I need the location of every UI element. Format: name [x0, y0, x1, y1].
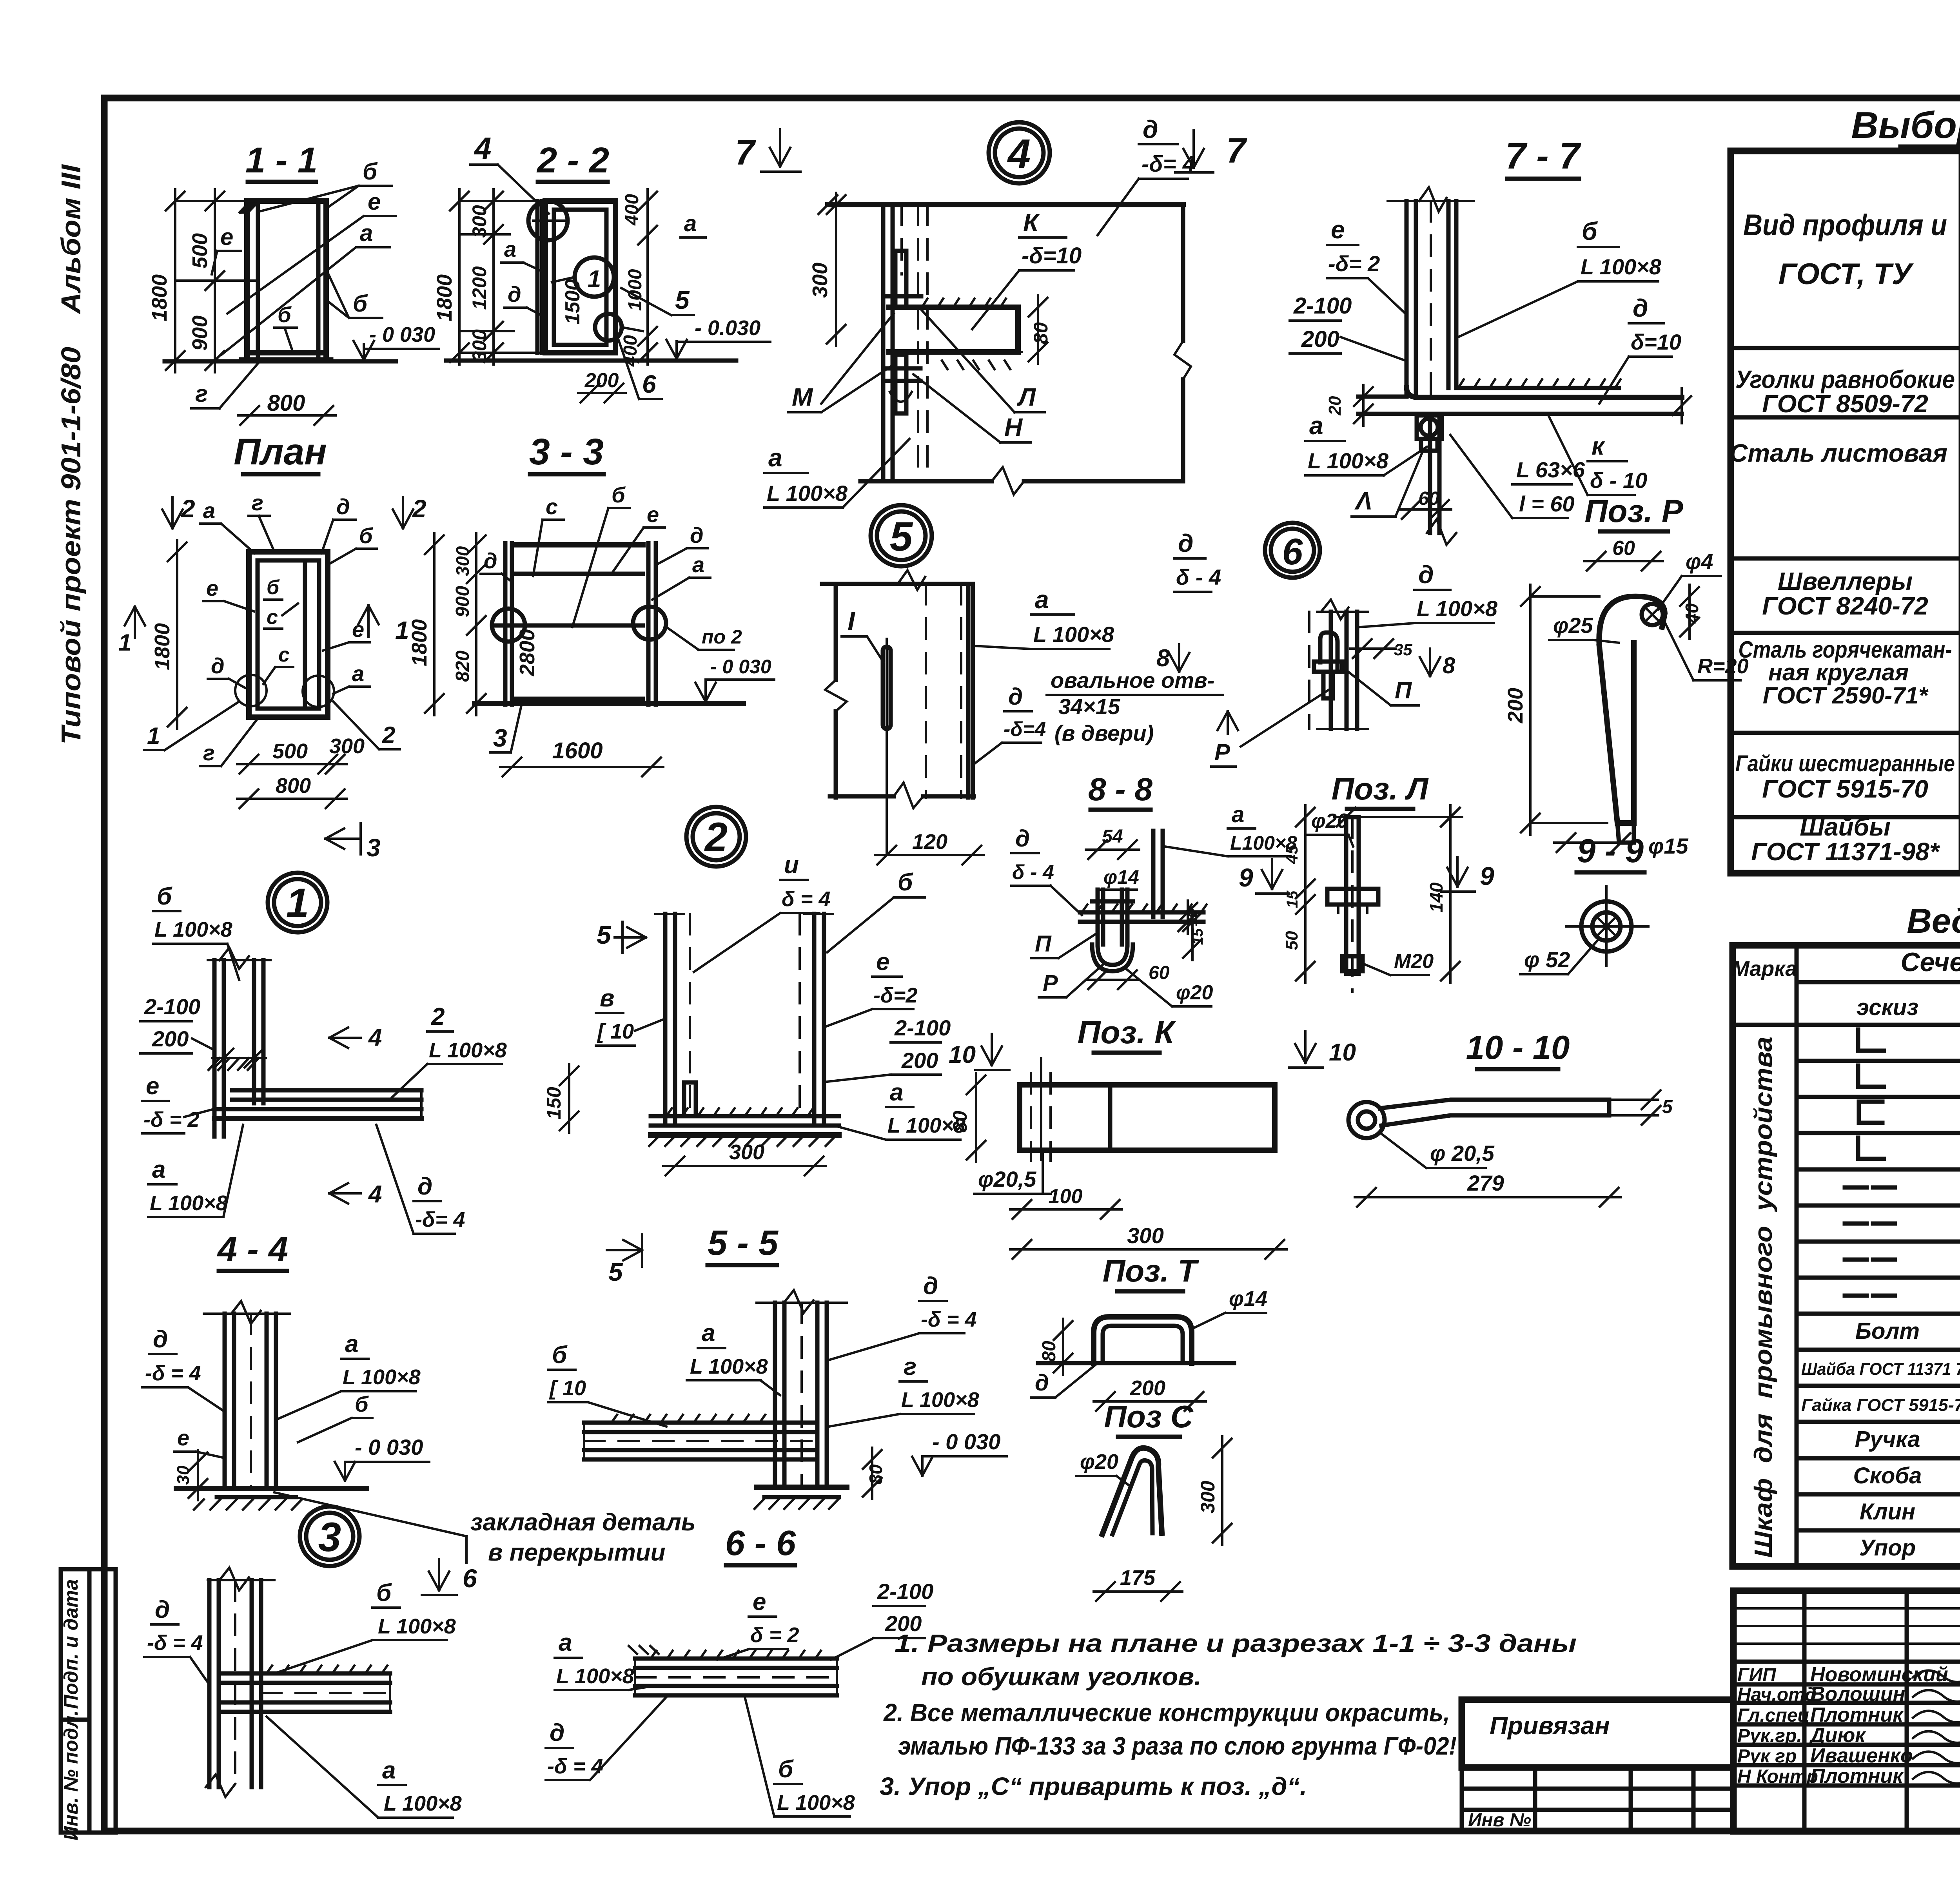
notes text block — [880, 1629, 1577, 1800]
table: Выборка металла grid — [1731, 151, 1960, 873]
svg-text:5: 5 — [675, 285, 690, 314]
svg-text:φ14: φ14 — [1229, 1287, 1267, 1311]
svg-text:80: 80 — [866, 1464, 886, 1485]
svg-text:Шайбы: Шайбы — [1800, 813, 1891, 841]
svg-text:200: 200 — [1301, 326, 1339, 352]
svg-text:100: 100 — [1049, 1185, 1083, 1208]
node circle 4 — [989, 122, 1050, 183]
svg-text:б: б — [552, 1341, 568, 1369]
table: Ведомость элементов title — [1907, 901, 1960, 940]
svg-text:820: 820 — [452, 651, 473, 682]
table: Ведомость элементов header — [1732, 947, 1960, 1030]
svg-text:L 100×8: L 100×8 — [1417, 596, 1498, 621]
svg-text:7: 7 — [735, 133, 756, 172]
svg-text:300: 300 — [468, 329, 490, 362]
svg-text:3. Упор „С“ приварить к поз: 3. Упор „С“ приварить к поз. „д“. — [880, 1772, 1307, 1800]
svg-text:8: 8 — [1443, 653, 1455, 678]
План title — [234, 431, 327, 474]
section 3-3 title — [529, 431, 604, 474]
Поз. С title — [1104, 1399, 1193, 1437]
svg-text:е: е — [368, 189, 381, 215]
table: Ведомость элементов rotated mark text — [1749, 1037, 1777, 1558]
svg-text:1800: 1800 — [151, 623, 174, 670]
svg-text:-δ=2: -δ=2 — [873, 984, 918, 1007]
svg-text:45: 45 — [1282, 845, 1301, 864]
svg-text:ГОСТ 11371-98*: ГОСТ 11371-98* — [1751, 838, 1940, 866]
svg-text:6 - 6: 6 - 6 — [725, 1524, 796, 1563]
svg-text:и: и — [784, 852, 799, 879]
svg-text:а: а — [890, 1079, 903, 1106]
svg-text:-δ = 4: -δ = 4 — [147, 1631, 203, 1655]
Поз. Л title — [1332, 771, 1429, 809]
svg-text:е: е — [146, 1073, 159, 1100]
svg-text:-δ= 2: -δ= 2 — [1328, 251, 1380, 276]
svg-text:200: 200 — [885, 1611, 922, 1636]
svg-text:φ4: φ4 — [1686, 549, 1713, 574]
svg-text:6: 6 — [642, 370, 656, 398]
svg-text:200: 200 — [1504, 688, 1527, 723]
grid below Привязан box — [1462, 1767, 1733, 1831]
svg-text:б: б — [278, 302, 292, 327]
svg-text:35: 35 — [1394, 640, 1412, 659]
svg-text:60: 60 — [1149, 963, 1170, 983]
table: Выборка металла title — [1851, 104, 1960, 147]
node 1 detail drawing (угол каркаса) — [208, 948, 421, 1137]
svg-text:Н Контр: Н Контр — [1737, 1766, 1818, 1787]
svg-text:Выборка металла: Выборка металла — [1851, 104, 1960, 146]
svg-text:д: д — [1035, 1370, 1049, 1396]
svg-text:д: д — [211, 653, 225, 678]
svg-text:1200: 1200 — [468, 266, 490, 310]
svg-text:Поз. К: Поз. К — [1078, 1015, 1176, 1050]
svg-text:по 2: по 2 — [702, 626, 742, 648]
svg-text:300: 300 — [1197, 1481, 1219, 1514]
svg-text:9 - 9: 9 - 9 — [1577, 832, 1644, 870]
svg-text:закладная деталь: закладная деталь — [470, 1509, 696, 1536]
svg-text:ГОСТ, ТУ: ГОСТ, ТУ — [1779, 257, 1914, 291]
svg-text:L 100×8: L 100×8 — [767, 481, 848, 506]
svg-text:1500: 1500 — [561, 279, 584, 324]
svg-text:М20: М20 — [1394, 950, 1434, 973]
svg-text:2: 2 — [181, 495, 195, 523]
section 10-10 drawing (ручка стержень) — [1348, 1090, 1673, 1207]
svg-text:4: 4 — [368, 1024, 382, 1051]
svg-text:φ15: φ15 — [1648, 834, 1689, 858]
svg-text:Рук.гр.: Рук.гр. — [1737, 1726, 1802, 1746]
Поз. Л drawing (болт с пластиной) — [1282, 805, 1462, 992]
node 2 detail labels — [596, 852, 965, 1140]
svg-text:φ20: φ20 — [1176, 981, 1213, 1004]
svg-text:-δ = 4: -δ = 4 — [145, 1361, 201, 1385]
svg-text:К: К — [1023, 208, 1040, 237]
svg-text:2 - 2: 2 - 2 — [536, 140, 609, 180]
svg-text:а: а — [702, 1320, 715, 1347]
svg-text:1. Размеры на плане и разр: 1. Размеры на плане и разрезах 1-1 ÷ 3-3… — [895, 1629, 1577, 1657]
section 4-4 labels — [142, 1326, 429, 1481]
svg-text:Л: Л — [1017, 383, 1036, 411]
svg-text:б: б — [267, 576, 280, 599]
svg-text:- 0 030: - 0 030 — [932, 1429, 1000, 1454]
svg-text:L 100×8: L 100×8 — [429, 1039, 507, 1062]
svg-text:Плотник: Плотник — [1810, 1765, 1904, 1787]
закладная деталь text with leader — [274, 1492, 696, 1566]
svg-text:30: 30 — [174, 1465, 193, 1485]
section 6-6 labels — [546, 1579, 933, 1816]
svg-text:φ20: φ20 — [1311, 810, 1348, 832]
Поз. Р title — [1584, 493, 1683, 531]
svg-text:е: е — [352, 617, 364, 642]
svg-text:(в двери): (в двери) — [1054, 721, 1154, 745]
section 4-4 title — [217, 1230, 288, 1271]
Поз. Т title — [1103, 1253, 1200, 1291]
svg-text:4 - 4: 4 - 4 — [217, 1230, 288, 1269]
svg-text:Поз. Л: Поз. Л — [1332, 771, 1429, 806]
svg-text:φ 52: φ 52 — [1524, 947, 1570, 972]
svg-text:200: 200 — [584, 369, 619, 392]
svg-text:по обушкам уголков.: по обушкам уголков. — [921, 1662, 1201, 1691]
svg-text:Поз. Р: Поз. Р — [1584, 493, 1683, 529]
svg-text:L 100×8: L 100×8 — [690, 1355, 768, 1378]
svg-text:д: д — [550, 1719, 564, 1746]
svg-text:Поз С: Поз С — [1104, 1399, 1193, 1434]
svg-text:15: 15 — [1190, 928, 1206, 945]
svg-text:δ - 10: δ - 10 — [1590, 468, 1647, 493]
svg-text:г: г — [904, 1353, 916, 1380]
svg-text:800: 800 — [267, 390, 305, 416]
table: Выборка металла header text — [1743, 165, 1960, 343]
Поз. К title — [1078, 1015, 1176, 1053]
svg-text:900: 900 — [188, 315, 212, 351]
svg-text:а: а — [1232, 802, 1244, 827]
section 1-1 drawing — [148, 189, 336, 425]
svg-text:I: I — [848, 606, 856, 636]
svg-text:6: 6 — [1282, 531, 1303, 573]
section 8-8 title — [1088, 772, 1152, 810]
svg-text:54: 54 — [1102, 826, 1123, 847]
svg-text:- 0 030: - 0 030 — [710, 656, 771, 678]
svg-text:279: 279 — [1467, 1171, 1504, 1195]
svg-text:е: е — [753, 1588, 766, 1615]
svg-text:1: 1 — [147, 723, 160, 749]
svg-text:50: 50 — [1282, 931, 1301, 950]
svg-text:ГОСТ 8509-72: ГОСТ 8509-72 — [1762, 390, 1928, 418]
svg-text:а: а — [559, 1629, 572, 1656]
svg-text:φ20: φ20 — [1080, 1450, 1118, 1474]
svg-text:е: е — [647, 502, 659, 527]
section 5-5 drawing — [584, 1290, 886, 1509]
svg-text:в: в — [600, 985, 614, 1012]
svg-text:эмалью ПФ-133 за 3 раза по: эмалью ПФ-133 за 3 раза по слою грунта Г… — [898, 1732, 1457, 1760]
svg-text:3: 3 — [367, 834, 381, 862]
title block signature rows — [1737, 1663, 1960, 1787]
svg-text:ная круглая: ная круглая — [1768, 659, 1909, 685]
svg-text:2-100: 2-100 — [877, 1579, 933, 1604]
svg-text:500: 500 — [188, 233, 212, 268]
svg-text:Вид профиля и: Вид профиля и — [1743, 208, 1947, 242]
svg-text:с: с — [278, 644, 290, 666]
node 3 detail drawing — [206, 1568, 390, 1797]
section 4-4 drawing — [174, 1301, 367, 1510]
svg-text:д: д — [1015, 825, 1030, 852]
svg-text:2: 2 — [431, 1003, 445, 1030]
svg-text:L 100×8: L 100×8 — [777, 1791, 855, 1815]
svg-text:- 0.030: - 0.030 — [695, 316, 760, 340]
svg-text:-δ=4: -δ=4 — [1004, 718, 1046, 741]
svg-text:[ 10: [ 10 — [549, 1376, 586, 1400]
section 7-7 labels — [1290, 216, 1681, 518]
svg-text:б: б — [612, 482, 626, 507]
svg-text:200: 200 — [1130, 1376, 1165, 1400]
svg-text:4: 4 — [474, 131, 491, 165]
svg-text:80: 80 — [1039, 1341, 1060, 1362]
svg-text:а: а — [768, 444, 782, 472]
svg-text:2-100: 2-100 — [894, 1015, 951, 1040]
svg-text:Инв. № подл.: Инв. № подл. — [60, 1710, 82, 1840]
План drawing — [118, 495, 426, 862]
svg-text:6: 6 — [463, 1564, 477, 1593]
svg-text:l = 60: l = 60 — [1519, 491, 1575, 516]
svg-text:500: 500 — [272, 740, 308, 763]
svg-text:300: 300 — [468, 205, 490, 238]
svg-text:800: 800 — [276, 774, 311, 798]
svg-text:Типовой проект 901-1-6/80 А: Типовой проект 901-1-6/80 Альбом III — [56, 164, 86, 745]
svg-text:е: е — [206, 576, 218, 600]
svg-text:-δ=10: -δ=10 — [1022, 243, 1082, 268]
svg-text:L 100×8: L 100×8 — [154, 918, 232, 941]
svg-text:L 100×8: L 100×8 — [343, 1365, 421, 1389]
svg-text:4: 4 — [368, 1181, 382, 1208]
svg-text:Н: Н — [1004, 413, 1023, 441]
svg-text:δ = 4: δ = 4 — [782, 887, 831, 911]
svg-text:с: с — [267, 606, 278, 629]
svg-text:б: б — [353, 290, 368, 317]
svg-text:140: 140 — [1426, 882, 1446, 912]
svg-text:300: 300 — [729, 1140, 764, 1164]
marker 6 down-arrow — [422, 1559, 477, 1595]
section marker 9 (left) — [1239, 859, 1289, 894]
node circle 2 — [686, 807, 746, 867]
svg-text:д: д — [1143, 115, 1158, 143]
svg-text:к: к — [1592, 432, 1606, 460]
section 7-7 drawing — [1325, 187, 1691, 545]
svg-text:1: 1 — [286, 880, 309, 926]
svg-text:-δ= 4: -δ= 4 — [415, 1208, 465, 1231]
svg-text:Привязан: Привязан — [1490, 1711, 1610, 1740]
svg-text:L 100×8: L 100×8 — [384, 1792, 462, 1815]
section 6-6 title — [725, 1524, 796, 1565]
svg-text:200: 200 — [152, 1026, 189, 1051]
table: Выборка металла row 2 (Сталь листовая) — [1730, 420, 1960, 557]
svg-text:40: 40 — [1682, 603, 1702, 624]
svg-text:2: 2 — [382, 722, 395, 748]
svg-text:Сталь горячекатан-: Сталь горячекатан- — [1739, 636, 1952, 663]
Поз. Т drawing (ручка) — [1031, 1287, 1267, 1411]
table: Выборка металла row 1 (Уголки равнобокие) — [1735, 354, 1960, 418]
table: Ведомость элементов data rows — [1801, 1030, 1960, 1562]
svg-text:е: е — [220, 224, 233, 250]
svg-text:8 - 8: 8 - 8 — [1088, 772, 1152, 807]
svg-text:1: 1 — [588, 266, 601, 293]
svg-text:1800: 1800 — [148, 274, 171, 321]
svg-text:Марка: Марка — [1732, 957, 1797, 981]
svg-text:а: а — [684, 211, 697, 236]
svg-text:ГОСТ 2590-71*: ГОСТ 2590-71* — [1763, 682, 1929, 709]
svg-text:300: 300 — [329, 734, 365, 758]
svg-text:Λ: Λ — [1354, 487, 1372, 515]
svg-text:а: а — [203, 498, 215, 523]
svg-text:400: 400 — [622, 194, 642, 226]
section 10-10 title — [1466, 1029, 1570, 1069]
svg-text:120: 120 — [912, 830, 947, 854]
svg-text:1000: 1000 — [625, 269, 646, 311]
svg-text:1: 1 — [118, 629, 131, 656]
svg-text:- 0 030: - 0 030 — [355, 1435, 423, 1459]
node circle 3 — [300, 1506, 359, 1566]
svg-text:М: М — [792, 383, 813, 411]
svg-text:б: б — [359, 523, 373, 548]
svg-text:г: г — [195, 381, 208, 407]
svg-text:в перекрытии: в перекрытии — [488, 1539, 666, 1566]
svg-text:2800: 2800 — [515, 629, 539, 676]
svg-text:Шайба ГОСТ 11371 78: Шайба ГОСТ 11371 78 — [1801, 1360, 1960, 1379]
section 5-5 title — [708, 1224, 779, 1265]
svg-text:Инв №: Инв № — [1468, 1810, 1531, 1831]
svg-text:Нач.отд: Нач.отд — [1737, 1684, 1817, 1705]
svg-text:ГОСТ 5915-70: ГОСТ 5915-70 — [1762, 775, 1928, 803]
svg-text:R=20: R=20 — [1697, 654, 1749, 678]
section marker 9 (right) — [1441, 857, 1494, 892]
svg-text:г: г — [203, 740, 215, 765]
svg-text:а: а — [504, 237, 516, 261]
svg-text:-δ= 4: -δ= 4 — [1142, 151, 1195, 177]
section 2-2 title — [536, 140, 609, 182]
node circle 6 — [1265, 523, 1320, 578]
svg-text:б: б — [157, 883, 172, 910]
table: Выборка металла row 4 (Сталь горячекатаная) — [1739, 636, 1960, 709]
svg-text:δ - 4: δ - 4 — [1012, 861, 1054, 884]
svg-text:П: П — [1035, 931, 1052, 957]
svg-text:Сечение: Сечение — [1900, 947, 1960, 977]
section 2-2 drawing — [433, 131, 736, 402]
svg-text:б: б — [363, 158, 378, 185]
node 5 detail labels — [974, 529, 1238, 764]
svg-text:д: д — [690, 523, 704, 547]
node circle 5 — [871, 505, 932, 566]
svg-text:-δ = 2: -δ = 2 — [143, 1108, 200, 1131]
svg-text:φ 20,5: φ 20,5 — [1430, 1141, 1495, 1166]
svg-text:д: д — [1178, 529, 1194, 557]
svg-text:Поз. Т: Поз. Т — [1103, 1253, 1200, 1288]
svg-text:5: 5 — [1662, 1097, 1673, 1117]
svg-text:L 100×8: L 100×8 — [887, 1114, 965, 1137]
svg-text:а: а — [360, 220, 373, 246]
svg-text:с: с — [546, 494, 558, 519]
svg-text:300: 300 — [808, 263, 832, 298]
svg-text:L 100×8: L 100×8 — [378, 1615, 456, 1638]
section marker 10 down-arrow — [1289, 1031, 1356, 1068]
svg-text:Болт: Болт — [1855, 1318, 1920, 1344]
svg-text:Р: Р — [1214, 739, 1230, 765]
svg-text:е: е — [177, 1425, 189, 1450]
node 4 detail drawing — [808, 193, 1191, 495]
svg-text:Клин: Клин — [1860, 1499, 1915, 1525]
svg-text:L 100×8: L 100×8 — [1581, 254, 1662, 279]
Поз. С drawing (упор) — [1076, 1436, 1232, 1601]
svg-text:Гайка ГОСТ 5915-70: Гайка ГОСТ 5915-70 — [1801, 1396, 1960, 1415]
План labels — [144, 490, 400, 808]
svg-text:д: д — [1633, 294, 1648, 322]
svg-text:1800: 1800 — [433, 274, 456, 321]
svg-text:3: 3 — [318, 1514, 341, 1560]
svg-text:а: а — [1035, 586, 1049, 614]
table: Выборка металла row 3 (Швеллеры) — [1762, 565, 1960, 620]
section 9-9 title — [1577, 832, 1644, 872]
svg-text:д: д — [923, 1273, 938, 1300]
svg-text:Ивашенко: Ивашенко — [1810, 1744, 1913, 1767]
svg-text:80: 80 — [1030, 322, 1052, 344]
svg-text:5: 5 — [597, 920, 612, 949]
Привязан box — [1462, 1700, 1733, 1767]
svg-text:900: 900 — [452, 586, 473, 617]
svg-text:План: План — [234, 431, 327, 473]
svg-text:а: а — [382, 1757, 396, 1784]
marker 10 down-arrow — [949, 1034, 1009, 1070]
svg-text:д: д — [1418, 560, 1434, 589]
node 1 detail labels — [140, 883, 507, 1234]
svg-text:б: б — [355, 1392, 369, 1416]
svg-text:-δ = 4: -δ = 4 — [921, 1308, 977, 1331]
svg-text:300: 300 — [1127, 1223, 1163, 1248]
svg-text:20: 20 — [1325, 396, 1345, 415]
svg-text:60: 60 — [1418, 488, 1439, 509]
table: Выборка металла row 6 (Шайбы) — [1751, 813, 1960, 866]
node 2 detail drawing (шкаф стенка) — [543, 914, 839, 1175]
svg-text:Волошин: Волошин — [1810, 1683, 1905, 1706]
svg-text:Гайки шестигранные: Гайки шестигранные — [1735, 751, 1955, 776]
svg-text:L 100×8: L 100×8 — [1033, 622, 1114, 647]
svg-text:е: е — [876, 948, 889, 975]
svg-text:3 - 3: 3 - 3 — [529, 431, 604, 473]
svg-text:5: 5 — [608, 1257, 623, 1286]
svg-text:Гл.спец: Гл.спец — [1737, 1705, 1810, 1726]
svg-text:Сталь листовая: Сталь листовая — [1730, 439, 1947, 467]
node 6 detail drawing — [1211, 560, 1498, 767]
svg-text:д: д — [1008, 683, 1023, 710]
left margin rotated text: project/album — [56, 164, 86, 745]
table: Ведомость элементов grid — [1733, 945, 1960, 1566]
svg-text:е: е — [1331, 216, 1345, 244]
svg-text:δ=10: δ=10 — [1631, 330, 1681, 354]
svg-text:эскиз: эскиз — [1857, 995, 1918, 1020]
left bottom stamp boxes (Подп. и дата / Инв. № подл.) — [60, 1569, 116, 1840]
svg-text:Рук гр: Рук гр — [1737, 1746, 1797, 1767]
svg-text:П: П — [1395, 677, 1412, 703]
svg-text:175: 175 — [1120, 1566, 1156, 1590]
svg-text:б: б — [778, 1756, 794, 1783]
svg-text:L 100×8: L 100×8 — [556, 1664, 634, 1688]
svg-text:а: а — [1309, 412, 1323, 440]
svg-text:б: б — [1582, 217, 1598, 245]
section 6-6 drawing — [629, 1646, 837, 1695]
svg-text:1 - 1: 1 - 1 — [245, 140, 318, 180]
svg-text:ГОСТ 8240-72: ГОСТ 8240-72 — [1762, 592, 1928, 620]
svg-text:L 100×8: L 100×8 — [150, 1191, 228, 1215]
section marker 7 down-arrow (left) — [735, 129, 800, 172]
section 8-8 drawing (скоба П и клин Р) — [1011, 802, 1297, 1006]
svg-text:д: д — [155, 1596, 170, 1623]
svg-text:2: 2 — [412, 495, 426, 523]
svg-text:10 - 10: 10 - 10 — [1466, 1029, 1570, 1066]
